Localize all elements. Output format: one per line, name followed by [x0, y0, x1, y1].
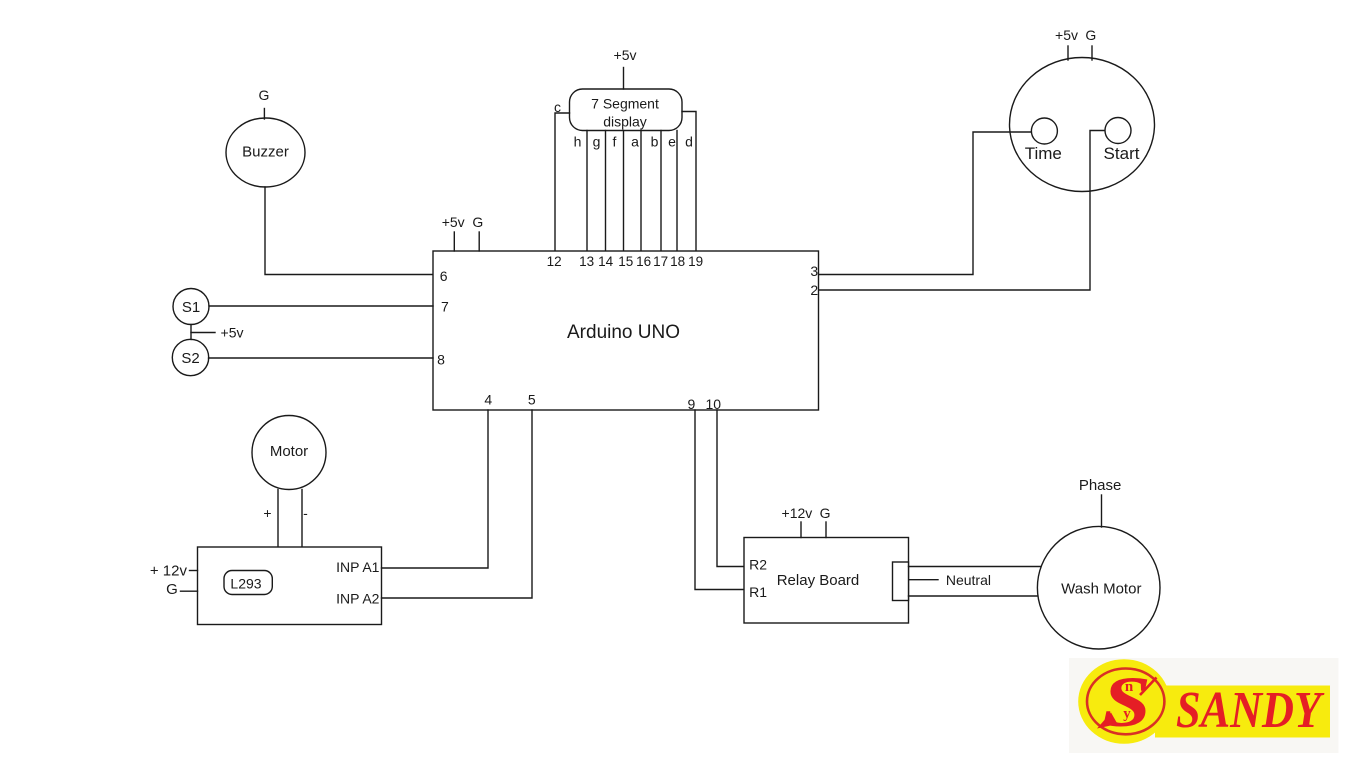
svg-text:h: h	[574, 134, 582, 150]
wire S1 to pin 7	[209, 305, 433, 307]
svg-text:G: G	[166, 581, 178, 598]
svg-text:L293: L293	[230, 576, 261, 592]
svg-text:Buzzer: Buzzer	[242, 144, 289, 161]
switch S1	[173, 289, 209, 325]
svg-text:INP A1: INP A1	[336, 559, 380, 575]
wire buzzer to pin 6	[265, 187, 433, 275]
svg-text:12: 12	[547, 254, 562, 269]
svg-text:G: G	[259, 87, 270, 103]
wire h to pin 13	[586, 131, 588, 252]
svg-text:c: c	[554, 99, 561, 115]
wire d to pin 19	[682, 112, 696, 252]
timer knob panel	[1010, 58, 1155, 192]
svg-text:Arduino UNO: Arduino UNO	[567, 322, 680, 343]
svg-text:17: 17	[653, 254, 668, 269]
svg-text:SANDY: SANDY	[1176, 682, 1325, 739]
wire phase stub	[1101, 495, 1103, 527]
svg-text:e: e	[668, 134, 676, 150]
svg-text:S2: S2	[181, 350, 199, 367]
wire relay to wash motor top	[909, 566, 1043, 568]
wire pin 10 to R2	[717, 410, 744, 567]
wire S2 to pin 8	[209, 357, 434, 359]
switch S2	[172, 339, 208, 375]
wire neutral tap	[910, 579, 939, 581]
svg-text:9: 9	[688, 396, 696, 412]
buzzer BZ1	[226, 118, 305, 187]
wire b to pin 17	[660, 131, 662, 252]
button Time	[1031, 118, 1057, 144]
svg-text:R1: R1	[749, 584, 767, 600]
svg-text:8: 8	[437, 352, 445, 368]
wire G stub to panel	[1091, 46, 1093, 60]
wire INP A2 to pin 5	[382, 410, 533, 598]
svg-text:3: 3	[810, 263, 818, 279]
relay board K1	[744, 538, 909, 624]
svg-text:13: 13	[579, 254, 594, 269]
wire Time button to pin 3	[819, 132, 1031, 275]
svg-text:display: display	[603, 114, 647, 130]
wire +5v tap	[191, 332, 215, 334]
wire +5v stub to Arduino	[453, 232, 455, 251]
svg-text:G: G	[472, 214, 483, 230]
svg-text:G: G	[820, 505, 831, 521]
SANDY logo	[1069, 658, 1339, 753]
wire G stub to relay board	[825, 522, 827, 538]
svg-text:S: S	[1102, 662, 1151, 742]
wire relay to wash motor bottom	[909, 595, 1040, 597]
wire g to pin 14	[605, 131, 607, 252]
svg-text:2: 2	[810, 282, 818, 298]
svg-text:Time: Time	[1025, 144, 1062, 163]
svg-text:INP A2: INP A2	[336, 591, 380, 607]
svg-text:d: d	[685, 134, 693, 150]
svg-text:10: 10	[706, 396, 722, 412]
wire G lead	[181, 590, 198, 592]
driver board L293 box	[198, 547, 382, 625]
wire e to pin 18	[676, 131, 678, 252]
wire +5v stub to panel	[1067, 46, 1069, 60]
7 segment display U2	[570, 89, 683, 131]
svg-text:Motor: Motor	[270, 443, 308, 460]
svg-text:y: y	[1123, 706, 1131, 722]
svg-text:+5v: +5v	[221, 325, 244, 341]
wire +5v to 7 segment display	[623, 68, 625, 90]
wire +12v stub to relay board	[800, 522, 802, 538]
svg-text:Neutral: Neutral	[946, 572, 991, 588]
svg-text:7 Segment: 7 Segment	[591, 96, 659, 112]
node G (buzzer ground stub)	[263, 109, 265, 120]
wire f to pin 15	[623, 131, 625, 252]
svg-text:R2: R2	[749, 557, 767, 573]
Arduino UNO U1	[433, 251, 819, 410]
svg-text:14: 14	[598, 254, 614, 269]
svg-text:S1: S1	[182, 299, 200, 316]
wire pin 9 to R1	[695, 410, 744, 590]
svg-text:+: +	[263, 505, 271, 521]
svg-text:-: -	[303, 505, 308, 521]
chip L293	[224, 571, 272, 595]
svg-text:16: 16	[636, 254, 651, 269]
svg-text:+5v: +5v	[614, 47, 637, 63]
wire motor plus lead	[277, 490, 279, 548]
wire a to pin 16	[640, 131, 642, 252]
wire INP A1 to pin 4	[382, 410, 489, 568]
svg-text:+ 12v: + 12v	[150, 562, 188, 579]
wire Start button to pin 2	[819, 131, 1105, 291]
svg-text:Relay Board: Relay Board	[777, 572, 860, 589]
svg-text:6: 6	[440, 268, 448, 284]
svg-text:n: n	[1125, 679, 1134, 695]
svg-text:Wash Motor: Wash Motor	[1061, 581, 1141, 598]
svg-text:+5v: +5v	[1055, 27, 1078, 43]
svg-text:+5v: +5v	[442, 214, 465, 230]
motor M1	[252, 416, 326, 490]
wire S1 to S2 junction	[190, 325, 192, 340]
svg-text:5: 5	[528, 391, 536, 407]
wash motor M2	[1037, 526, 1160, 649]
svg-text:Start: Start	[1104, 144, 1140, 163]
svg-text:b: b	[651, 134, 659, 150]
svg-text:Phase: Phase	[1079, 477, 1122, 494]
svg-text:15: 15	[618, 254, 633, 269]
svg-text:g: g	[593, 134, 601, 150]
wire +12v lead	[190, 570, 198, 572]
svg-text:4: 4	[484, 391, 492, 407]
svg-text:G: G	[1085, 27, 1096, 43]
relay output connector	[893, 562, 909, 601]
wire motor minus lead	[301, 490, 303, 548]
wire c to pin 12	[555, 113, 570, 251]
svg-text:a: a	[631, 134, 639, 150]
svg-text:18: 18	[670, 254, 685, 269]
svg-text:19: 19	[688, 254, 703, 269]
svg-text:+12v: +12v	[782, 505, 813, 521]
svg-text:7: 7	[441, 299, 449, 315]
svg-text:f: f	[613, 134, 617, 150]
button Start	[1105, 118, 1131, 144]
wire G stub to Arduino	[478, 232, 480, 251]
